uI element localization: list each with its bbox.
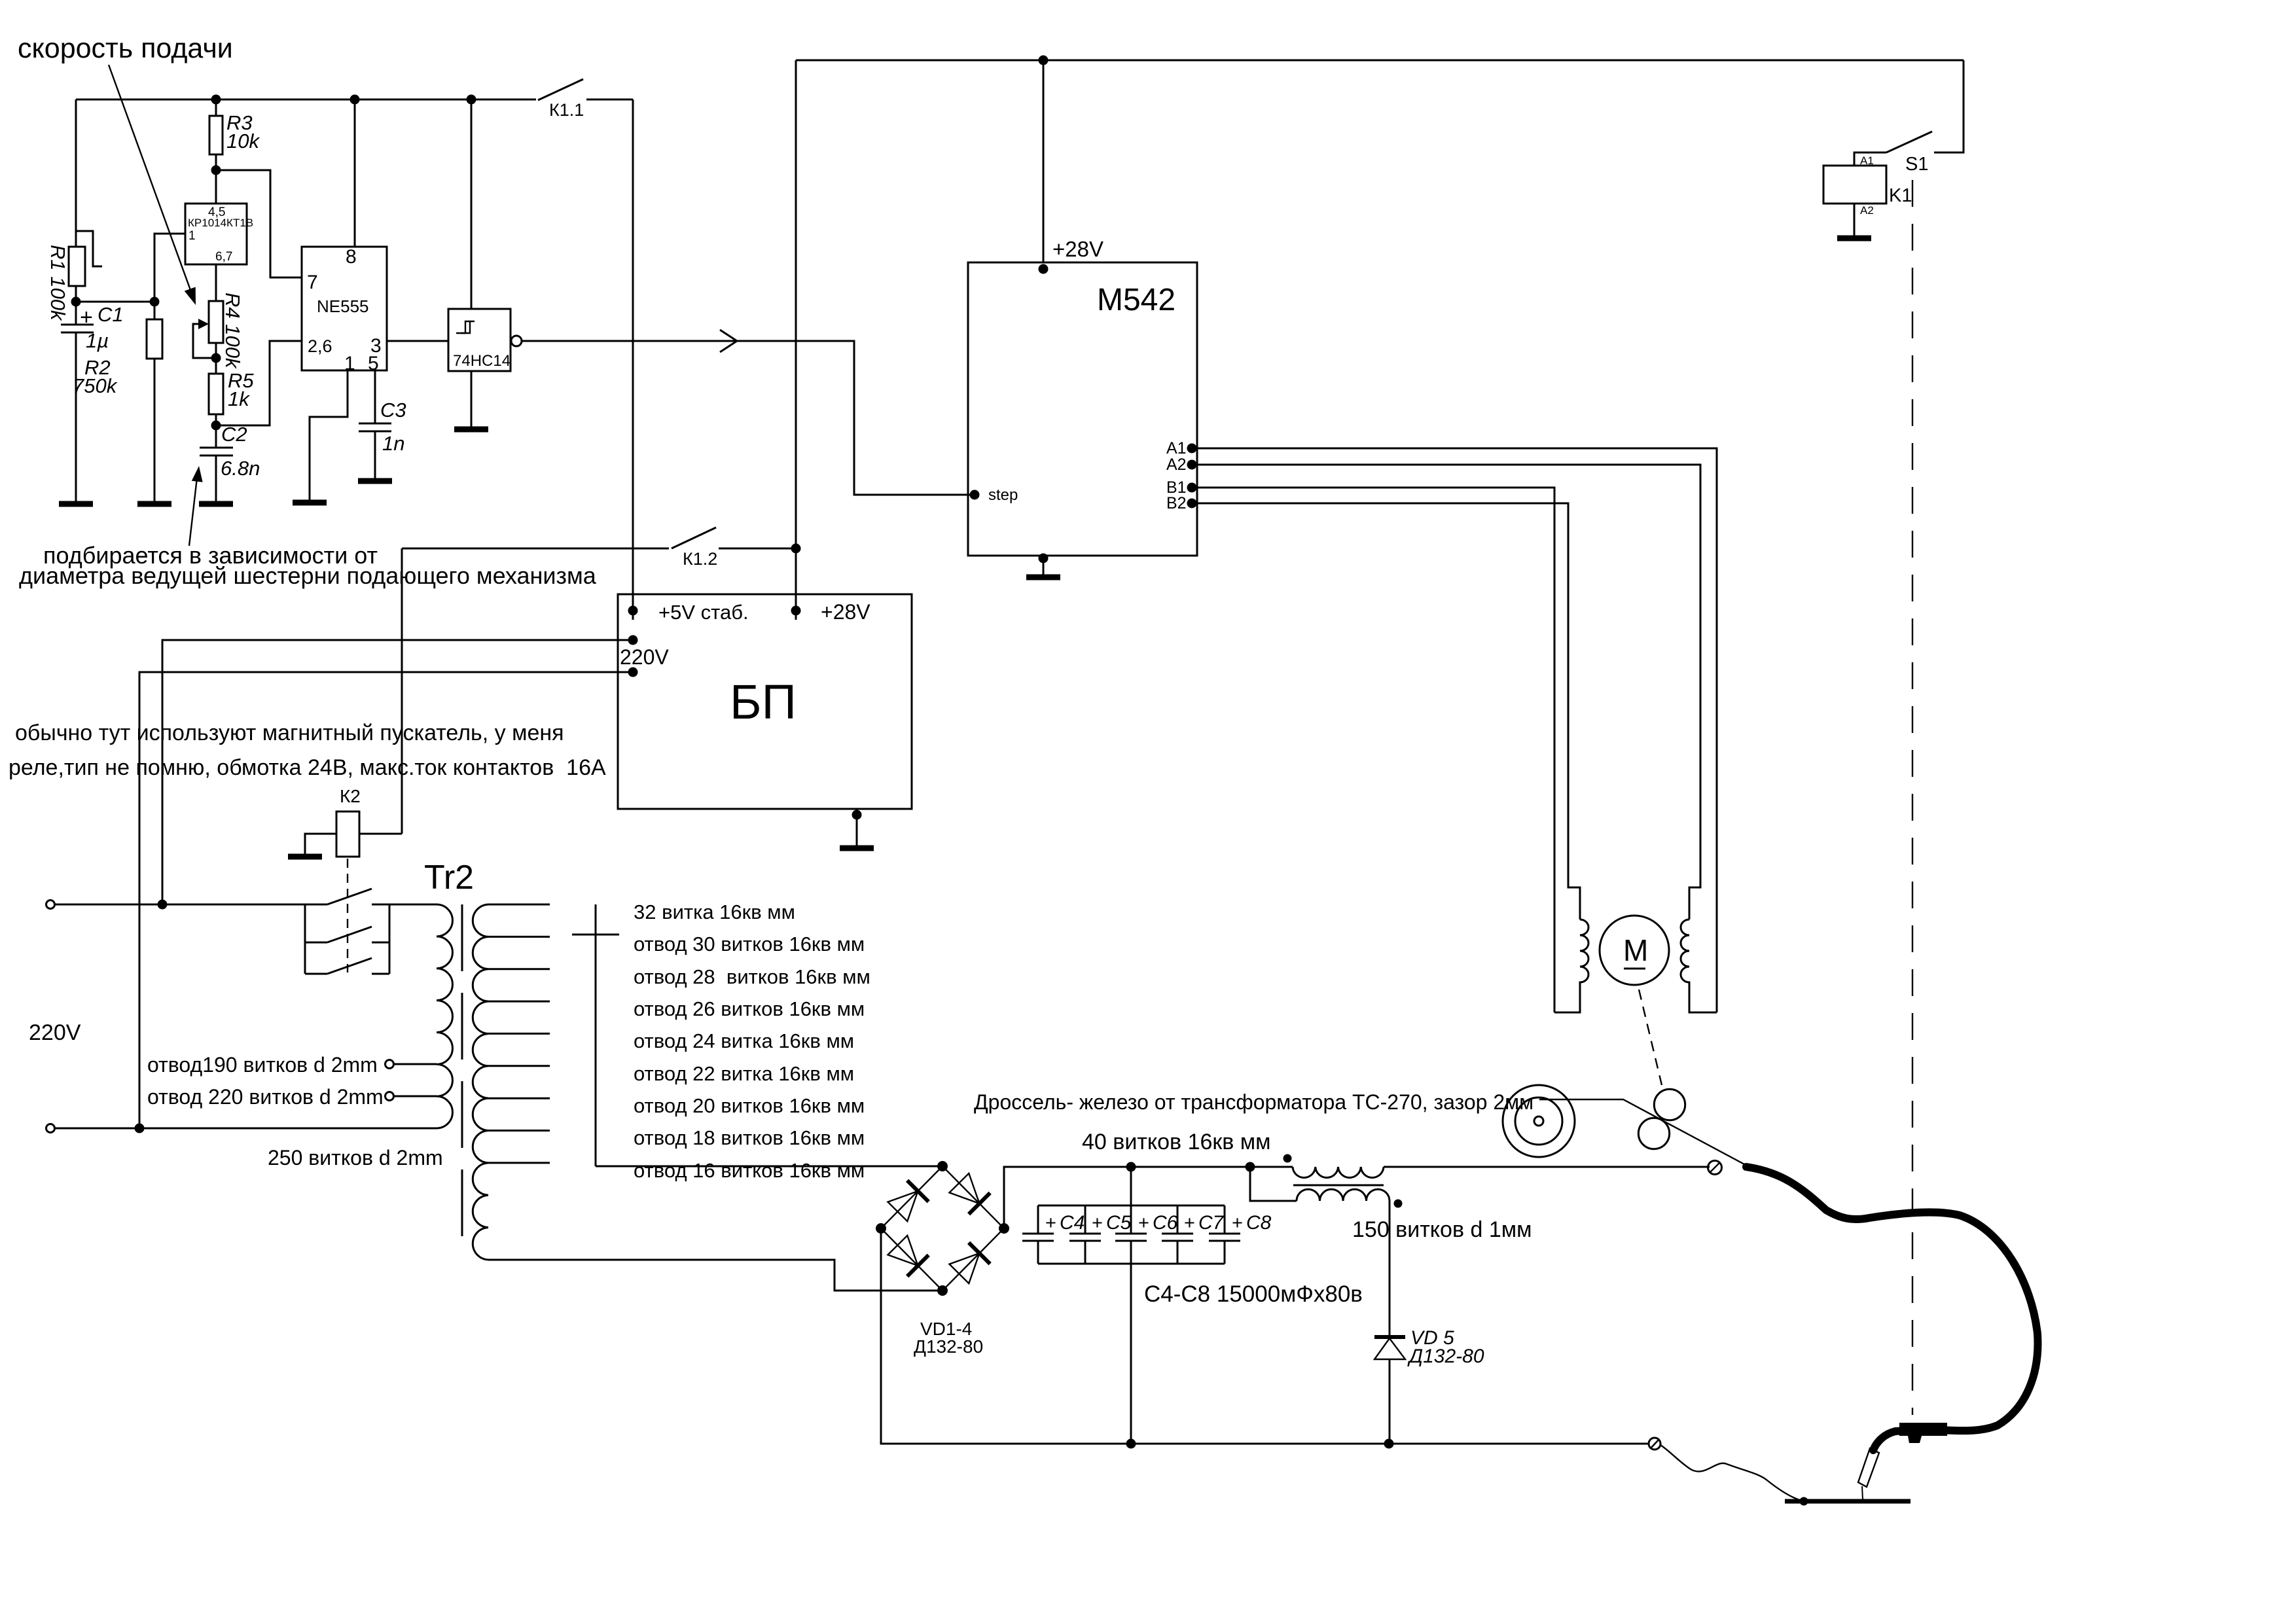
capacitor C1 lead — [75, 302, 77, 325]
ground (C1) — [59, 501, 93, 507]
svg-text:C4: C4 — [1060, 1212, 1085, 1234]
svg-text:диаметра ведущей шестерни пода: диаметра ведущей шестерни подающего меха… — [19, 562, 597, 589]
welding wire from spool — [1539, 1099, 1746, 1165]
svg-text:реле,тип не помню, обмотка 24В: реле,тип не помню, обмотка 24В, макс.ток… — [9, 755, 606, 780]
motor winding A (right pole) — [1681, 919, 1717, 1012]
wire: NE555 pin3 to 74HC14 — [387, 340, 448, 342]
ground (74HC14) — [454, 427, 488, 433]
svg-text:К2: К2 — [340, 786, 361, 806]
resistor R1 (rheostat) — [69, 247, 85, 286]
svg-text:7: 7 — [307, 272, 318, 293]
svg-text:NE555: NE555 — [317, 296, 369, 316]
svg-text:C2: C2 — [221, 423, 247, 446]
motor M body — [1600, 916, 1669, 985]
svg-text:отвод 30 витков 16кв мм: отвод 30 витков 16кв мм — [634, 933, 865, 955]
terminal: 220V upper — [46, 901, 55, 909]
pin +5V — [628, 606, 638, 616]
node A junction dot — [71, 297, 81, 307]
svg-text:+: + — [1232, 1213, 1243, 1234]
wire: L2 to VD5 — [1389, 1201, 1391, 1337]
ground (M542) — [1026, 575, 1060, 580]
svg-text:K1: K1 — [1889, 185, 1912, 206]
svg-text:КР1014КТ1В: КР1014КТ1В — [188, 217, 253, 229]
tap selector cross — [595, 904, 597, 1166]
wire: R2 to ground — [154, 359, 156, 504]
svg-text:2,6: 2,6 — [308, 336, 332, 356]
capacitor C7 — [1177, 1205, 1179, 1234]
svg-text:40 витков 16кв мм: 40 витков 16кв мм — [1082, 1130, 1271, 1154]
node: junction dot caps top — [1126, 1162, 1136, 1172]
wire: KP1014 to R4 — [215, 264, 217, 301]
wire: node A to R2 — [76, 301, 154, 303]
svg-text:отвод 24 витка 16кв мм: отвод 24 витка 16кв мм — [634, 1029, 854, 1052]
svg-text:1n: 1n — [382, 432, 404, 455]
svg-text:+5V стаб.: +5V стаб. — [658, 601, 749, 624]
node: bridge top vertex — [937, 1161, 948, 1171]
choke core — [1293, 1185, 1384, 1186]
svg-text:M542: M542 — [1097, 283, 1175, 317]
K2 actuator dashed link — [347, 859, 348, 972]
svg-text:Дроссель- железо от трансформа: Дроссель- железо от трансформатора ТС-27… — [974, 1090, 1534, 1114]
svg-text:B2: B2 — [1166, 494, 1187, 512]
wire spool — [1503, 1085, 1575, 1157]
node: junction dot R3 top — [211, 95, 221, 105]
pin +28V (BP) — [791, 606, 801, 616]
transistor U2 KP1014KT1B — [185, 204, 247, 264]
secondary tap stubs — [488, 904, 550, 906]
wire: M542 +28V pin — [1043, 60, 1045, 262]
L2 phasing dot — [1394, 1200, 1403, 1208]
svg-text:БП: БП — [730, 675, 797, 729]
switch K1.2 — [402, 548, 669, 550]
svg-text:R4 100k: R4 100k — [221, 293, 244, 369]
wire: BP 220V lower feed — [139, 672, 633, 1128]
wire: S1 left contact to K1 — [1854, 152, 1886, 166]
wire: +28V top rail — [796, 60, 1964, 62]
signal direction arrow — [720, 330, 737, 352]
svg-text:+: + — [1045, 1213, 1056, 1234]
wire: step signal to M542 — [522, 341, 971, 495]
dashed link motor to roller — [1639, 990, 1662, 1085]
svg-text:A1: A1 — [1166, 439, 1187, 457]
svg-text:250 витков d 2mm: 250 витков d 2mm — [268, 1146, 443, 1169]
wire: K2 coil left lead to ground — [305, 834, 336, 857]
stepper driver U4 M542 — [968, 262, 1197, 556]
node: junction dot 220V/BP — [158, 900, 168, 910]
svg-text:+28V: +28V — [821, 600, 870, 624]
ground (NE555 pin1) — [293, 500, 327, 506]
node: junction dot VD5 bottom — [1384, 1439, 1394, 1449]
svg-text:Д132-80: Д132-80 — [1407, 1346, 1484, 1367]
svg-text:отвод 20 витков 16кв мм: отвод 20 витков 16кв мм — [634, 1094, 865, 1117]
capacitor C3 — [359, 423, 391, 425]
leader arrow from note to C2 — [189, 478, 197, 546]
svg-text:отвод 220 витков d 2mm: отвод 220 витков d 2mm — [147, 1085, 384, 1109]
R4 wiper arm — [193, 324, 216, 358]
ground (K1) — [1837, 236, 1871, 241]
svg-text:+28V: +28V — [1052, 237, 1103, 261]
svg-text:отвод 16 витков 16кв мм: отвод 16 витков 16кв мм — [634, 1159, 865, 1182]
pin dot +28V — [1039, 264, 1049, 274]
transformer Tr2 primary winding — [389, 904, 452, 1128]
svg-text:8: 8 — [346, 246, 357, 268]
capacitor bank C4-C8 top bus — [1130, 1167, 1132, 1205]
node: junction dot C2 top — [211, 421, 221, 431]
capacitor C4 — [1037, 1205, 1039, 1234]
pins 220V — [628, 635, 638, 645]
power supply unit BP — [618, 594, 912, 809]
svg-text:C3: C3 — [380, 399, 406, 421]
svg-text:32 витка 16кв мм: 32 витка 16кв мм — [634, 901, 795, 923]
wire: R4 bottom — [215, 343, 217, 358]
svg-text:1: 1 — [188, 229, 196, 243]
svg-text:1: 1 — [344, 353, 355, 374]
diode VD1 (left-top edge) — [888, 1191, 918, 1221]
svg-text:10k: 10k — [226, 130, 260, 152]
wire: C3 to ground — [374, 431, 376, 481]
leader arrow from label to R4 wiper — [109, 65, 191, 292]
resistor R5 — [215, 358, 217, 374]
node: junction dot 150-turn winding tap — [1246, 1162, 1255, 1172]
wire: A1 to motor — [1197, 448, 1717, 1012]
svg-text:C5: C5 — [1106, 1212, 1132, 1234]
svg-text:750k: 750k — [73, 374, 118, 397]
svg-text:+: + — [1092, 1213, 1103, 1234]
svg-text:Д132-80: Д132-80 — [914, 1336, 983, 1357]
capacitor C6 — [1130, 1205, 1132, 1234]
terminal: plus output — [1708, 1161, 1722, 1175]
wire: K1 A2 to ground — [1854, 204, 1856, 238]
ground (C2) — [199, 501, 233, 507]
resistor R2 — [154, 302, 156, 319]
svg-text:C8: C8 — [1246, 1212, 1272, 1234]
node: junction dot caps bottom — [1126, 1439, 1136, 1449]
wire: BP ground — [852, 810, 862, 820]
svg-text:+: + — [80, 305, 93, 330]
svg-text:A2: A2 — [1166, 455, 1187, 474]
svg-text:отвод190 витков d 2mm: отвод190 витков d 2mm — [147, 1053, 378, 1077]
feed roller top — [1654, 1089, 1685, 1120]
resistor R3 — [215, 99, 217, 116]
wire: 74HC14 to ground — [471, 371, 473, 429]
ground (K2) — [288, 854, 322, 860]
node: bridge left vertex — [876, 1223, 886, 1234]
wire: 74HC14 supply — [471, 99, 473, 309]
ground clamp cable squiggle — [1660, 1445, 1804, 1501]
workpiece — [1785, 1499, 1910, 1504]
ground (C3) — [358, 478, 392, 484]
wire: choke to torch — [1384, 1166, 1710, 1168]
svg-text:отвод 28 витков 16кв мм: отвод 28 витков 16кв мм — [634, 965, 870, 988]
svg-text:74HC14: 74HC14 — [453, 352, 511, 370]
svg-text:step: step — [988, 486, 1018, 504]
svg-text:A2: A2 — [1860, 204, 1874, 217]
choke phasing dot — [1283, 1154, 1292, 1163]
node: junction dot M542 +28V — [1039, 56, 1049, 65]
svg-text:6,7: 6,7 — [215, 250, 232, 264]
wire: bridge plus up to bus — [1004, 1167, 1293, 1228]
feed roller bottom — [1638, 1118, 1669, 1149]
wire: KP1014 pin1 to node — [154, 234, 185, 302]
wire: K1.1 to BP +5V — [632, 99, 634, 620]
wire: C2 to ground — [215, 455, 217, 504]
wire stickout — [1862, 1486, 1863, 1499]
primary tap 190 turns — [386, 1060, 394, 1069]
wire: R3 bottom to KP1014 — [215, 154, 217, 204]
wire: +28V rail down to BP — [795, 60, 797, 620]
svg-text:К1.1: К1.1 — [549, 100, 584, 120]
contactor K2 contact block — [304, 904, 306, 974]
capacitor C5 — [1085, 1205, 1086, 1234]
svg-text:М: М — [1623, 933, 1648, 967]
node: junction dot R2 top — [150, 297, 160, 307]
terminal: 220V lower — [46, 1124, 55, 1133]
svg-text:отвод 22 витка 16кв мм: отвод 22 витка 16кв мм — [634, 1062, 854, 1085]
diode VD5 — [1374, 1335, 1405, 1339]
wire: left rail down to R1 — [75, 99, 77, 247]
wire: NE555 pin5 to C3 — [374, 370, 376, 423]
svg-text:1µ: 1µ — [86, 329, 109, 352]
svg-text:1k: 1k — [228, 387, 250, 410]
inverter U3 74HC14 — [448, 309, 511, 371]
terminal: minus output — [1649, 1438, 1660, 1450]
switch K1.1 — [538, 79, 583, 100]
svg-text:+: + — [1138, 1213, 1149, 1234]
wire: M542 ground pin — [1039, 554, 1049, 563]
node: bridge right vertex — [999, 1223, 1009, 1234]
node: junction dot K1.2 / +28V — [791, 544, 801, 554]
wire: B1 to motor — [1197, 488, 1554, 1012]
ground (R2) — [137, 501, 171, 507]
node: junction dot below R4 — [211, 353, 221, 363]
node: junction dot 220V lower — [135, 1124, 145, 1133]
svg-text:Tr2: Tr2 — [424, 859, 474, 897]
svg-text:К1.2: К1.2 — [683, 549, 717, 569]
inductor L2 (choke 150-turn winding) — [1250, 1167, 1297, 1201]
wire: NE555 pin1 to ground — [310, 370, 348, 503]
K2 contact 2 — [305, 942, 327, 944]
node: junction dot 74HC14 supply — [467, 95, 476, 105]
wire: C1 to ground — [75, 332, 77, 504]
74HC14 output bubble — [511, 336, 522, 346]
svg-text:отвод 18 витков 16кв мм: отвод 18 витков 16кв мм — [634, 1126, 865, 1149]
switch S1 blade — [1886, 132, 1932, 152]
torch body — [1899, 1423, 1947, 1436]
K2 contact 3 — [305, 973, 327, 975]
svg-text:обычно тут используют магнитны: обычно тут используют магнитный пускател… — [15, 721, 564, 745]
capacitor C1 plates — [61, 324, 94, 326]
svg-text:220V: 220V — [620, 645, 669, 669]
R1 wiper tap — [77, 231, 102, 266]
wire: R5 bottom to node — [215, 414, 217, 425]
wire: 220V lower line — [55, 1128, 437, 1130]
svg-text:отвод 26 витков 16кв мм: отвод 26 витков 16кв мм — [634, 997, 865, 1020]
wire: node to NE555 pin7 — [216, 170, 302, 277]
diode VD3 (left-bottom edge) — [888, 1236, 918, 1266]
node: clamp junction on workpiece — [1800, 1497, 1808, 1506]
wire: rail corner to S1 — [1934, 60, 1964, 152]
wire: BP 220V upper feed — [162, 640, 633, 904]
capacitor bank bottom bus — [1038, 1263, 1225, 1265]
wire: secondary bottom to rectifier — [488, 1260, 940, 1291]
torch nozzle — [1858, 1448, 1879, 1487]
timer U1 NE555 — [302, 247, 387, 370]
diode VD4 (bottom-right edge) — [950, 1253, 980, 1283]
relay K1 coil — [1823, 166, 1886, 204]
svg-text:C7: C7 — [1198, 1212, 1225, 1234]
node: junction dot below R3 — [211, 166, 221, 175]
transformer Tr2 secondary winding — [473, 904, 488, 1260]
wire: NE555 pin8 to rail — [354, 99, 356, 247]
wire: selected tap to rectifier — [596, 1166, 940, 1168]
wire: R1 bottom to node — [75, 286, 77, 302]
wire: node to NE555 pin 2,6 — [216, 341, 302, 425]
wire: K1.2 down to relay K2 coil — [401, 548, 403, 834]
wire: caps bottom to bottom bus — [1130, 1264, 1132, 1444]
wire: A2 to motor — [1197, 465, 1700, 919]
svg-text:6.8n: 6.8n — [221, 457, 260, 480]
svg-text:C1: C1 — [98, 303, 124, 326]
svg-text:скорость подачи: скорость подачи — [18, 33, 233, 64]
svg-text:220V: 220V — [29, 1020, 81, 1045]
primary tap 220 turns — [386, 1092, 394, 1101]
inductor L1 (choke main winding) — [1293, 1167, 1384, 1177]
torch cable (thick) — [1746, 1167, 2037, 1450]
capacitor C8 — [1224, 1205, 1226, 1234]
svg-text:C6: C6 — [1153, 1212, 1178, 1234]
diode VD2 (top-right edge) — [950, 1173, 980, 1204]
motor winding B (left pole) — [1554, 919, 1588, 1012]
svg-text:R1 100k: R1 100k — [46, 245, 69, 321]
svg-text:150 витков d 1мм: 150 витков d 1мм — [1352, 1217, 1532, 1242]
transformer core — [461, 904, 463, 1240]
svg-text:С4-С8 15000мФх80в: С4-С8 15000мФх80в — [1144, 1281, 1363, 1307]
K2 contact 1 — [327, 889, 372, 904]
wire: B2 to motor — [1197, 503, 1580, 919]
wire: top supply rail — [76, 99, 536, 101]
wire: bridge minus to bottom bus — [881, 1228, 1649, 1444]
svg-text:S1: S1 — [1905, 154, 1928, 175]
bridge rectifier VD1-4 frame — [881, 1166, 1004, 1291]
dashed link K1/S1 to torch trigger — [1912, 180, 1913, 1415]
node: bridge bottom vertex — [937, 1285, 948, 1296]
svg-text:5: 5 — [368, 353, 379, 374]
node: junction dot NE555 pin8 — [350, 95, 360, 105]
wire: K2 coil right lead — [359, 833, 402, 835]
potentiometer R4 — [209, 301, 223, 343]
svg-text:+: + — [1184, 1213, 1195, 1234]
pin step — [970, 490, 980, 500]
svg-text:A1: A1 — [1860, 154, 1874, 167]
wire: 220V upper line — [55, 904, 327, 906]
ground (BP) — [840, 846, 874, 851]
capacitor C2 — [215, 425, 217, 448]
